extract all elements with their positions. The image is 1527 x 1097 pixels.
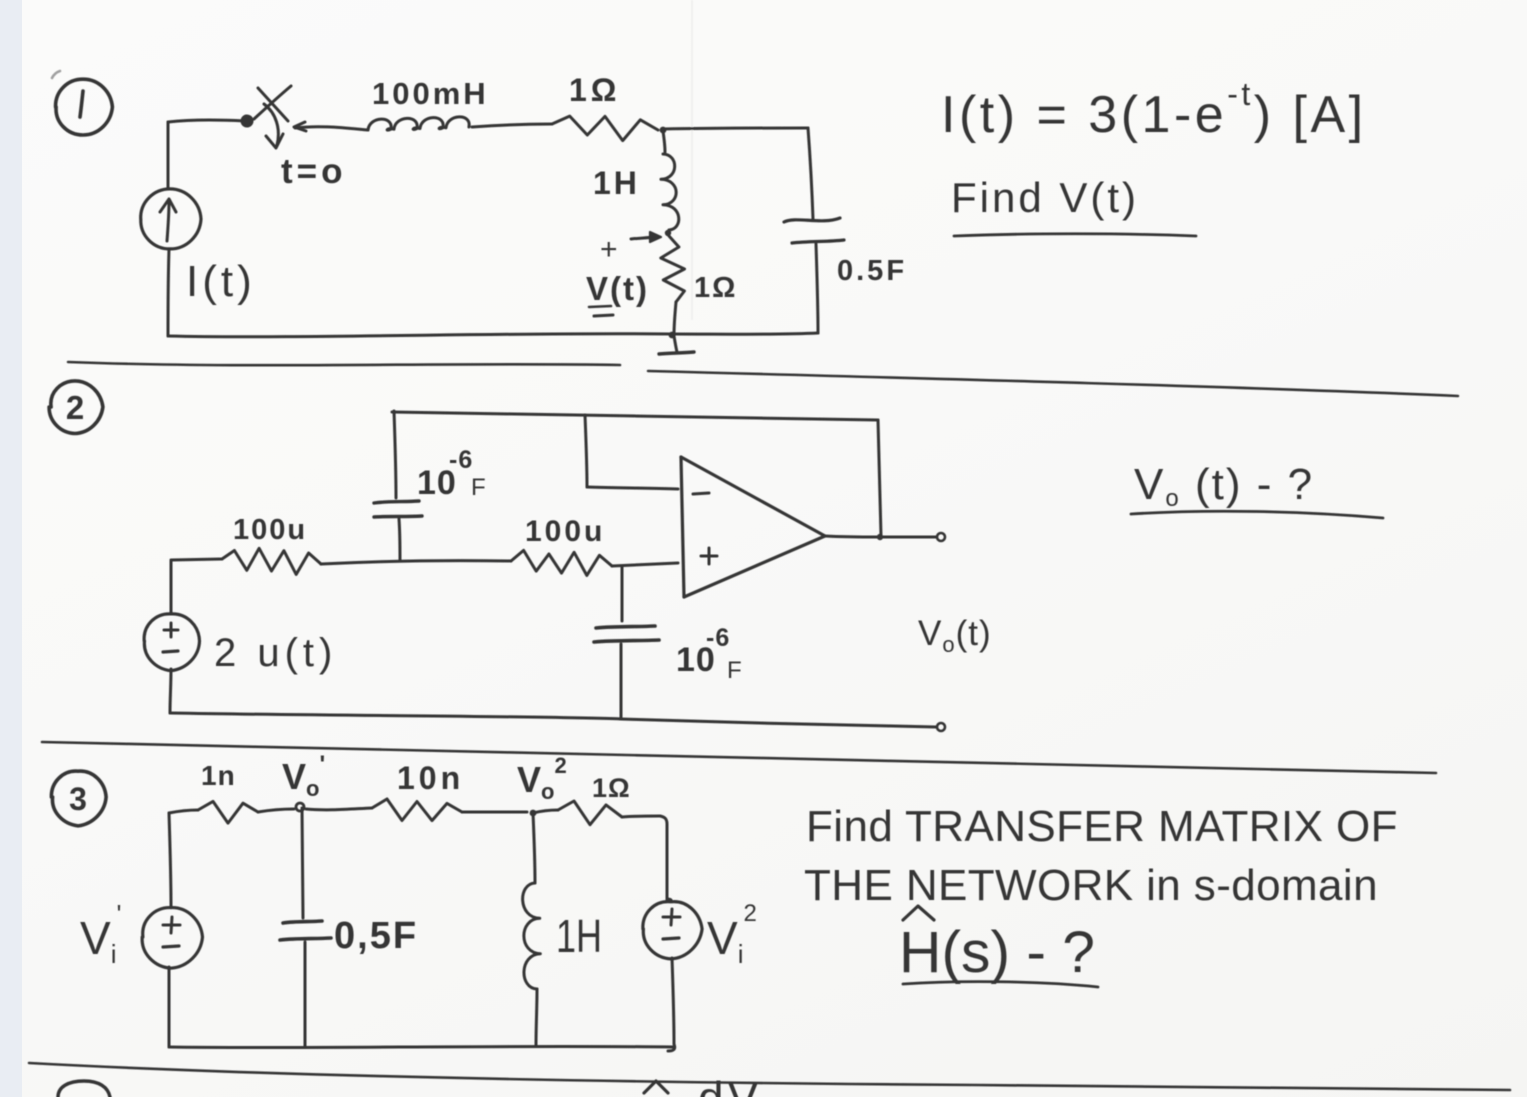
svg-text:-6: -6 [449,446,473,474]
svg-text:3: 3 [69,781,87,817]
svg-text:-6: -6 [706,624,730,652]
svg-text:I(t): I(t) [186,257,256,306]
svg-text:t=o: t=o [281,152,346,191]
svg-text:1n: 1n [201,760,236,791]
svg-text:Vo(t): Vo(t) [918,614,992,657]
svg-text:Vo': Vo' [282,751,325,801]
svg-text:Find TRANSFER MATRIX OF: Find TRANSFER MATRIX OF [806,802,1398,851]
svg-text:Vi2: Vi2 [707,900,757,969]
svg-text:Vo (t) - ?: Vo (t) - ? [1134,460,1314,512]
svg-text:10n: 10n [397,760,464,796]
svg-text:1H: 1H [556,910,602,962]
svg-text:0,5F: 0,5F [334,915,418,957]
svg-text:1Ω: 1Ω [569,72,620,108]
svg-text:F: F [727,657,742,684]
svg-text:1Ω: 1Ω [592,773,631,803]
svg-text:Find V(t): Find V(t) [951,174,1139,221]
svg-text:0.5F: 0.5F [837,255,907,287]
svg-text:dV: dV [698,1072,762,1097]
svg-text:V(t): V(t) [586,270,649,307]
svg-text:2 u(t): 2 u(t) [214,631,337,675]
svg-text:Vi': Vi' [80,899,121,969]
svg-text:2: 2 [66,389,84,426]
svg-text:100u: 100u [525,515,605,548]
svg-text:THE NETWORK in s-domain: THE NETWORK in s-domain [804,861,1378,910]
svg-text:H(s) - ?: H(s) - ? [899,920,1095,985]
svg-text:I(t) = 3(1-e-t) [A]: I(t) = 3(1-e-t) [A] [941,76,1367,144]
svg-text:F: F [471,474,486,501]
svg-text:+: + [600,233,618,266]
svg-text:Vo2: Vo2 [517,753,567,804]
svg-text:1H: 1H [593,165,640,201]
svg-text:100mH: 100mH [372,76,489,111]
svg-text:100u: 100u [233,514,307,546]
svg-text:1Ω: 1Ω [694,272,737,304]
